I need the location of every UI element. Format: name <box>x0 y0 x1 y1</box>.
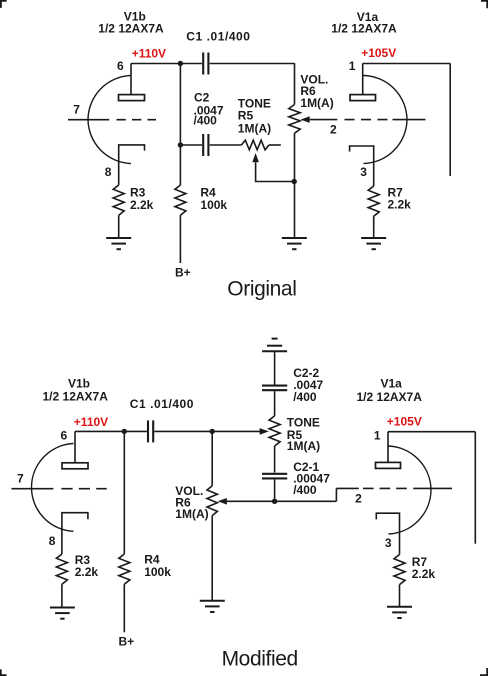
svg-text:C1 .01/400: C1 .01/400 <box>130 397 194 411</box>
wire C2-2 to tone pot R5 (bottom) <box>274 391 276 416</box>
junction node C2-1 bottom (bottom) <box>272 499 277 504</box>
capacitor C2-1 <box>262 473 287 475</box>
tube V1b envelope arc (top) <box>88 76 131 164</box>
R6 wiper arrow (bottom, points left) <box>218 498 227 505</box>
junction node C2 tap <box>178 142 183 147</box>
potentiometer R6 VOL element (bottom) <box>207 486 217 516</box>
wire down to R6 <box>294 63 296 104</box>
svg-text:2: 2 <box>330 123 337 137</box>
svg-text:+110V: +110V <box>132 46 166 60</box>
corner mark bottom-right <box>480 668 488 676</box>
step wire up to V1a grid (bottom) <box>335 488 337 501</box>
V1a cathode <box>350 146 374 186</box>
svg-text:1M(A): 1M(A) <box>300 96 333 110</box>
wire V1a plate to output rail <box>363 63 451 65</box>
R5 wiper wire down and right to R6 bottom <box>256 162 295 181</box>
junction node plate/C1/C2 <box>178 61 183 66</box>
V1b cathode <box>119 145 145 185</box>
capacitor C2-2 <box>262 385 287 387</box>
V1a cathode (bottom) <box>376 513 399 554</box>
svg-text:V1a: V1a <box>381 377 403 391</box>
svg-text:1/2 12AX7A: 1/2 12AX7A <box>331 21 397 35</box>
V1a plate lead wire (pin 1) <box>362 64 364 95</box>
svg-text:B+: B+ <box>175 265 191 279</box>
wire R5 to C2-1 <box>274 446 276 473</box>
V1b grid dashed line (bottom) <box>61 488 106 490</box>
svg-text:V1b: V1b <box>68 377 90 391</box>
V1b plate bar <box>119 95 145 101</box>
svg-text:+105V: +105V <box>387 415 422 429</box>
resistor R4 element (bottom) <box>119 554 130 584</box>
wire junction down to C2 and R4 <box>179 64 181 186</box>
V1a plate bar <box>350 95 376 101</box>
capacitor C1 (bottom) <box>147 420 149 442</box>
V1a plate bar (bottom) <box>376 462 401 468</box>
ground below R3 (top) <box>106 237 131 239</box>
V1a grid dashed line <box>345 119 388 121</box>
svg-text:8: 8 <box>105 165 112 179</box>
corner mark top-right <box>481 0 488 8</box>
svg-text:1M(A): 1M(A) <box>287 439 320 453</box>
svg-text:1: 1 <box>349 59 356 73</box>
V1b plate bar (bottom) <box>62 463 88 469</box>
svg-text:B+: B+ <box>119 634 135 648</box>
wire R4 to B+ <box>179 215 181 263</box>
svg-text:1/2 12AX7A: 1/2 12AX7A <box>98 22 164 36</box>
wire junction down to R6 (bottom) <box>211 431 213 485</box>
tube V1b envelope arc (bottom) <box>31 444 73 532</box>
wire R3 to ground <box>118 215 120 237</box>
svg-text:1/2 12AX7A: 1/2 12AX7A <box>357 390 423 404</box>
tone wiper arrow (bottom, points right) <box>260 428 269 435</box>
svg-text:+105V: +105V <box>361 46 396 60</box>
svg-text:/400: /400 <box>293 390 317 404</box>
svg-text:1/2 12AX7A: 1/2 12AX7A <box>43 390 109 404</box>
V1b grid dashed line <box>117 119 157 121</box>
V1b plate lead wire (bottom pin 6) <box>74 431 76 462</box>
wire to C2 <box>180 144 202 146</box>
wire R6 wiper to V1a grid <box>310 119 338 121</box>
potentiometer R5 TONE element (bottom) <box>269 416 280 446</box>
svg-text:8: 8 <box>49 534 56 548</box>
V1b grid pin 7 stub (bottom) <box>12 488 54 490</box>
wire C1 to R6 top <box>210 63 295 65</box>
svg-text:C2: C2 <box>194 91 210 105</box>
ground below R7 (top) <box>361 237 386 239</box>
wire R7 to ground <box>373 216 375 237</box>
R5 wiper arrow <box>252 153 259 162</box>
svg-text:6: 6 <box>61 429 68 443</box>
ground below R3 (bottom) <box>50 607 75 609</box>
svg-text:6: 6 <box>117 59 124 73</box>
svg-text:2.2k: 2.2k <box>412 567 436 581</box>
V1b plate lead wire (pin 6) <box>130 64 132 95</box>
V1b grid line pin 7 stub <box>68 119 109 121</box>
capacitor C1 (top) <box>202 53 204 75</box>
output rail wire down (bottom) <box>474 432 476 544</box>
wire C2 to tone pot R5 <box>210 144 242 146</box>
V1a grid dashed line (bottom) <box>363 487 407 489</box>
wire R4 to B+ (bottom) <box>123 584 125 632</box>
wire junction down to R4 (bottom) <box>123 431 125 554</box>
svg-text:Modified: Modified <box>222 647 298 670</box>
svg-text:1M(A): 1M(A) <box>175 507 208 521</box>
junction node plate/C1/R4 (bottom) <box>122 429 127 434</box>
wire R3 to ground (bottom) <box>61 584 63 607</box>
corner mark bottom-left <box>0 669 7 676</box>
svg-text:Original: Original <box>227 278 296 301</box>
svg-text:1M(A): 1M(A) <box>238 121 271 135</box>
R6 wiper arrow <box>301 116 310 123</box>
resistor R7 element (top) <box>368 186 379 216</box>
wire R6 wiper to junction and V1a pin 2 (bottom) <box>227 500 337 502</box>
svg-text:2.2k: 2.2k <box>130 198 154 212</box>
svg-text:3: 3 <box>360 165 367 179</box>
tube V1a envelope arc (top) <box>364 76 408 164</box>
potentiometer R5 TONE element (top) <box>241 140 269 150</box>
svg-text:2: 2 <box>355 492 362 506</box>
svg-text:1: 1 <box>374 428 381 442</box>
wire R6 bottom to ground (bottom) <box>211 516 213 601</box>
ground below R6 (top) <box>282 237 307 239</box>
wire C2-1 to junction <box>274 480 276 502</box>
output rail wire down (top) <box>449 64 451 177</box>
wire V1b plate to C1 (bottom) <box>75 430 147 432</box>
ground below R7 (bottom) <box>387 606 412 608</box>
resistor R3 element (top) <box>113 185 124 215</box>
V1a grid solid segment left (bottom) <box>336 487 358 489</box>
R5 right stub <box>269 144 281 146</box>
svg-text:+110V: +110V <box>74 415 108 429</box>
V1a grid solid segment right (bottom) <box>413 487 452 489</box>
wire R6 bottom to ground <box>294 133 296 237</box>
wire V1a plate to output rail (bottom) <box>388 431 475 433</box>
resistor R3 element (bottom) <box>56 554 67 584</box>
svg-text:3: 3 <box>385 536 392 550</box>
junction node C1/R6 top (bottom) <box>210 429 215 434</box>
svg-text:7: 7 <box>73 102 80 116</box>
ground below R6 (bottom) <box>200 600 225 602</box>
svg-text:100k: 100k <box>200 198 227 212</box>
V1a plate lead wire (bottom pin 1) <box>387 432 389 463</box>
svg-text:2.2k: 2.2k <box>388 198 412 212</box>
corner mark top-left <box>0 0 7 8</box>
junction node R6 bottom / R5 cold <box>292 179 297 184</box>
svg-text:2.2k: 2.2k <box>75 565 99 579</box>
svg-text:7: 7 <box>17 472 24 486</box>
svg-text:/400: /400 <box>293 483 317 497</box>
wire C1 to tone wiper arrow <box>154 430 260 432</box>
potentiometer R6 VOL element (top) <box>289 105 300 134</box>
V1b cathode (bottom) <box>62 513 88 554</box>
tube V1a envelope arc (bottom) <box>389 446 432 534</box>
wire R7 to ground (bottom) <box>399 585 401 607</box>
svg-text:100k: 100k <box>144 565 171 579</box>
wire V1b plate to C1 <box>131 63 202 65</box>
resistor R4 element (top) <box>175 185 186 215</box>
V1a grid solid segment (pin 2 side) <box>393 119 426 121</box>
wire ground to C2-2 <box>274 351 276 384</box>
inverted ground above C2-2 <box>262 350 287 352</box>
svg-text:/400: /400 <box>194 114 218 128</box>
capacitor C2 (top) <box>202 134 204 156</box>
resistor R7 element (bottom) <box>394 555 405 585</box>
svg-text:C1 .01/400: C1 .01/400 <box>186 30 250 44</box>
